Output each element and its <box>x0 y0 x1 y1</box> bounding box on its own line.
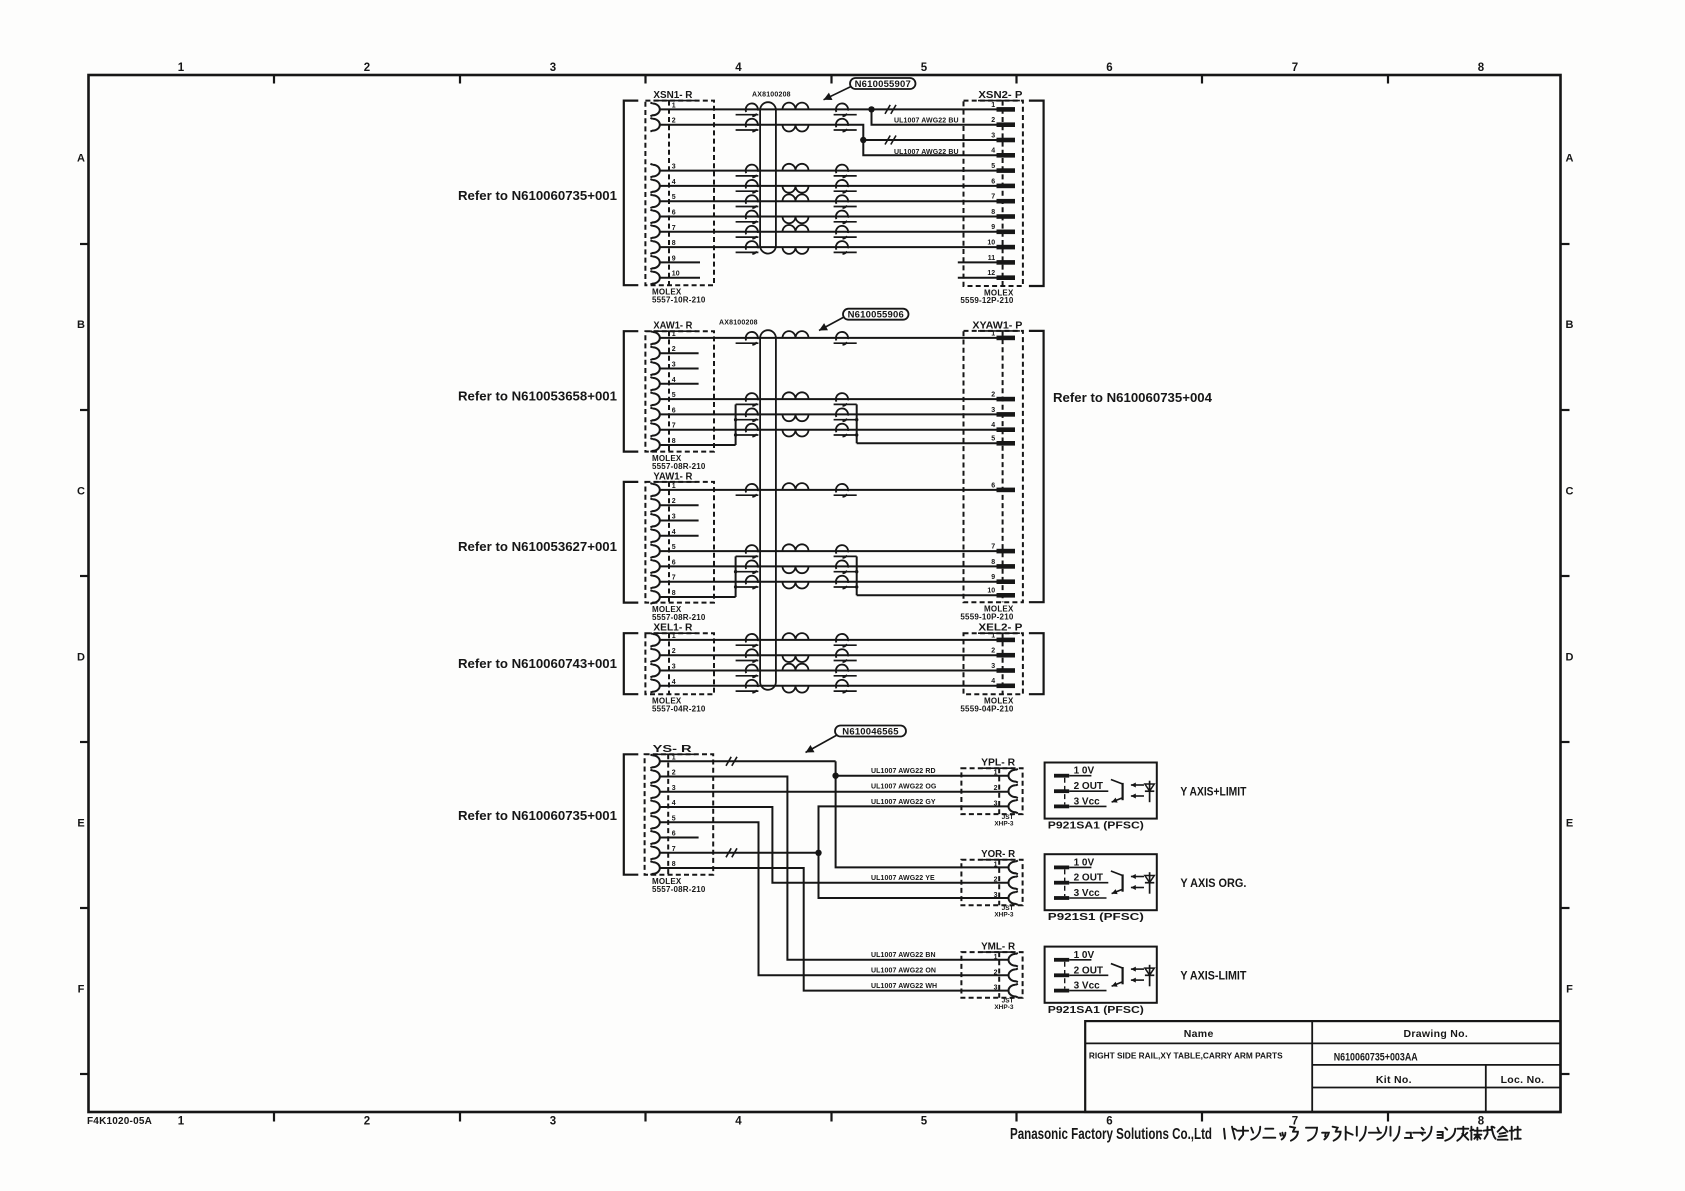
svg-text:10: 10 <box>672 271 680 278</box>
XSN2-P pin 8 plug contact <box>997 214 1016 219</box>
wire YS-1 with break mark <box>660 760 836 762</box>
svg-text:P921SA1 (PFSC): P921SA1 (PFSC) <box>1048 821 1144 832</box>
svg-text:1: 1 <box>672 754 676 761</box>
YML-R pin 1 contact <box>1009 953 1018 967</box>
YS-R pin 1 contact <box>650 755 659 769</box>
svg-text:2: 2 <box>364 62 370 74</box>
cable shield capsule section 1 <box>760 102 776 253</box>
YS-R pin 3 contact <box>650 785 659 799</box>
XSN2-P pin 12 stub wire <box>958 277 997 279</box>
svg-text:6: 6 <box>991 482 995 489</box>
svg-text:F: F <box>78 984 85 996</box>
svg-text:Refer to N610060743+001: Refer to N610060743+001 <box>458 656 617 671</box>
row tick left <box>80 409 89 411</box>
svg-text:7: 7 <box>991 194 995 201</box>
XEL2-P pin 2 plug contact <box>997 653 1016 658</box>
twisted pair symbols XEL1 wire 2 <box>746 649 758 662</box>
junction dot B <box>860 137 866 143</box>
wire XSN1-3 to XSN2-5 <box>660 170 997 172</box>
XSN1-R pin 9 contact <box>650 256 659 270</box>
connector XSN1-R inner dashed divider <box>668 101 670 286</box>
XYAW1-P pin 9 plug contact <box>997 579 1016 584</box>
connector XSN1-R bracket <box>624 101 639 286</box>
twisted pair symbols XAW1 wire 6 <box>746 408 758 421</box>
svg-text:E: E <box>1566 818 1573 830</box>
svg-text:3 Vcc: 3 Vcc <box>1074 796 1101 807</box>
svg-text:UL1007 AWG22 BN: UL1007 AWG22 BN <box>871 952 936 959</box>
title block row line 2 <box>1312 1064 1560 1066</box>
svg-text:Y AXIS ORG.: Y AXIS ORG. <box>1180 878 1246 890</box>
svg-text:P921SA1 (PFSC): P921SA1 (PFSC) <box>1048 1005 1144 1016</box>
svg-text:1 0V: 1 0V <box>1074 857 1095 868</box>
XSN2-P pin 6 plug contact <box>997 184 1016 189</box>
U3 pin 2 bar <box>1054 973 1069 977</box>
svg-text:UL1007 AWG22 OG: UL1007 AWG22 OG <box>871 784 937 791</box>
connector YAW1-R dashed outline <box>645 482 714 603</box>
wire XAW1-1 to XYAW1-1 <box>660 337 997 339</box>
connector XEL1-R bracket <box>624 633 639 694</box>
U2 pin 2 lead <box>1069 882 1108 884</box>
svg-text:1: 1 <box>991 330 995 337</box>
connector XSN2-P dashed outline <box>964 101 1023 286</box>
XYAW1-P pin 6 plug contact <box>997 488 1016 493</box>
YML-R pin 3 contact <box>1009 984 1018 998</box>
svg-text:XSN1- R: XSN1- R <box>653 89 692 101</box>
wire YS-3 to YPL-2 <box>660 791 1009 793</box>
callout N610055907 leader <box>824 87 852 100</box>
XSN2-P pin 11 stub wire <box>958 261 997 263</box>
wire YS-4 to YOR-2 <box>660 807 1009 883</box>
svg-text:XHP-3: XHP-3 <box>994 1004 1014 1011</box>
XYAW1-P pin 8 plug contact <box>997 564 1016 569</box>
wire Vcc up to YPL-3 <box>819 806 1009 852</box>
connector XYAW1-P bracket <box>1029 331 1044 602</box>
YAW1 pin2 stub wire <box>660 504 699 506</box>
YAW1-R pin 5 contact <box>650 544 659 558</box>
XAW1 pin2 stub wire <box>660 352 699 354</box>
svg-text:4: 4 <box>672 800 676 807</box>
svg-text:1: 1 <box>672 102 676 109</box>
column tick bottom <box>1201 1112 1203 1122</box>
svg-text:1 0V: 1 0V <box>1074 766 1095 777</box>
svg-text:5: 5 <box>672 392 676 399</box>
U2 light arrow 2 <box>1131 887 1144 889</box>
U3 internal dashed link <box>1064 962 1066 989</box>
wire 0V to YPL-1 <box>836 775 1009 777</box>
U1 light arrow 2 <box>1131 795 1144 797</box>
svg-text:3: 3 <box>991 663 995 670</box>
U1 pin 3 lead <box>1069 805 1106 807</box>
connector YS-R bracket <box>624 754 639 874</box>
svg-text:D: D <box>1566 652 1574 664</box>
svg-text:2: 2 <box>994 785 998 792</box>
U1 pin 2 lead <box>1069 790 1108 792</box>
svg-text:Y AXIS+LIMIT: Y AXIS+LIMIT <box>1180 786 1246 798</box>
XSN1-R pin 5 contact <box>650 194 659 208</box>
svg-text:UL1007 AWG22 BU: UL1007 AWG22 BU <box>894 149 959 156</box>
shield drain bus right section 3 <box>856 556 858 595</box>
YAW1 pin3 stub wire <box>660 520 699 522</box>
svg-text:11: 11 <box>988 255 996 262</box>
column tick top <box>1387 75 1389 84</box>
title block divider name/drawing <box>1311 1021 1313 1112</box>
connector YS-R inner dashed divider <box>667 754 669 874</box>
row tick right <box>1561 1073 1570 1075</box>
wire XSN1-1 to junction <box>660 108 872 110</box>
U1 pin 3 bar <box>1054 805 1069 809</box>
row tick left <box>80 575 89 577</box>
connector XAW1-R bracket <box>624 331 639 451</box>
svg-text:5559-12P-210: 5559-12P-210 <box>960 296 1013 305</box>
twisted pair symbols XSN1 wire 8 <box>746 241 758 254</box>
row tick right <box>1561 409 1570 411</box>
svg-text:4: 4 <box>672 529 676 536</box>
svg-text:3: 3 <box>550 62 556 74</box>
svg-text:1: 1 <box>672 483 676 490</box>
svg-text:3: 3 <box>672 664 676 671</box>
svg-text:UL1007 AWG22 RD: UL1007 AWG22 RD <box>871 768 936 775</box>
svg-text:UL1007 AWG22 BU: UL1007 AWG22 BU <box>894 118 959 125</box>
wire XEL1-4 to XEL2-4 <box>660 685 997 687</box>
break mark wire XSN2-3 <box>885 136 896 145</box>
connector XSN1-R dashed outline <box>645 101 714 286</box>
svg-text:6: 6 <box>672 559 676 566</box>
shield drain bus left section 2 <box>735 404 737 445</box>
U2 pin 3 lead <box>1069 897 1106 899</box>
svg-text:UL1007 AWG22 ON: UL1007 AWG22 ON <box>871 968 936 975</box>
YAW1-R pin 6 contact <box>650 560 659 574</box>
svg-text:Drawing No.: Drawing No. <box>1404 1028 1469 1040</box>
svg-text:XHP-3: XHP-3 <box>994 820 1014 827</box>
svg-text:3: 3 <box>991 132 995 139</box>
wire XAW1-5 to XYAW1-2 <box>660 398 997 400</box>
U3 pin 2 lead <box>1069 974 1108 976</box>
svg-text:4: 4 <box>735 1116 742 1128</box>
XAW1-R pin 8 contact <box>650 438 659 452</box>
column tick top <box>273 75 275 84</box>
footer company name japanese <box>1224 1127 1236 1139</box>
svg-text:Refer to N610060735+001: Refer to N610060735+001 <box>458 808 617 823</box>
YOR-R pin 3 contact <box>1009 891 1018 905</box>
svg-text:5: 5 <box>921 1116 928 1128</box>
XAW1-R pin 5 contact <box>650 392 659 406</box>
svg-text:F: F <box>1566 984 1573 996</box>
wire XAW1-6 to XYAW1-3 <box>660 413 997 415</box>
U1 internal dashed link <box>1064 778 1066 805</box>
U2 pin 1 bar <box>1054 866 1069 870</box>
svg-text:5: 5 <box>672 815 676 822</box>
svg-text:4: 4 <box>991 148 995 155</box>
svg-text:2: 2 <box>672 346 676 353</box>
svg-text:8: 8 <box>991 209 995 216</box>
twisted pair symbols XAW1 wire 1 <box>746 332 758 345</box>
YAW1-R pin 8 contact <box>650 590 659 604</box>
U1 pin 1 bar <box>1054 774 1069 778</box>
row tick left <box>80 741 89 743</box>
U2 pin 2 bar <box>1054 881 1069 885</box>
svg-text:3: 3 <box>550 1116 556 1128</box>
row tick right <box>1561 243 1570 245</box>
XYAW1-P pin 2 plug contact <box>997 397 1016 402</box>
svg-text:UL1007 AWG22 WH: UL1007 AWG22 WH <box>871 983 937 990</box>
XSN1-R pin 7 contact <box>650 225 659 239</box>
svg-text:1: 1 <box>994 954 998 961</box>
row tick right <box>1561 575 1570 577</box>
twisted pair symbols YAW1 wire 1 <box>746 484 758 497</box>
photo sensor U1 outline <box>1045 763 1157 819</box>
XEL2-P pin 3 plug contact <box>997 668 1016 673</box>
svg-text:N610055907: N610055907 <box>855 79 911 90</box>
twisted pair symbols XEL1 wire 4 <box>746 680 758 693</box>
twisted pair symbols XSN1 wire 1 <box>746 103 758 116</box>
XEL2-P pin 4 plug contact <box>997 684 1016 689</box>
svg-text:5559-10P-210: 5559-10P-210 <box>960 612 1013 621</box>
wire junction B to XSN2-3 <box>863 139 996 141</box>
svg-text:N610060735+003AA: N610060735+003AA <box>1334 1052 1418 1064</box>
svg-text:RIGHT SIDE RAIL,XY TABLE,CARRY: RIGHT SIDE RAIL,XY TABLE,CARRY ARM PARTS <box>1089 1051 1283 1061</box>
svg-text:7: 7 <box>1292 62 1298 74</box>
svg-text:1: 1 <box>991 632 995 639</box>
U1 pin 1 lead <box>1069 775 1091 777</box>
wire YAW1-5 to XYAW1-7 <box>660 550 997 552</box>
svg-text:9: 9 <box>672 255 676 262</box>
column tick bottom <box>459 1112 461 1122</box>
connector XEL2-P inner dashed divider <box>1002 633 1004 694</box>
twisted pair symbols XSN1 wire 5 <box>746 195 758 208</box>
U2 photodiode <box>1149 872 1151 894</box>
U1 photodiode <box>1149 781 1151 803</box>
svg-text:3: 3 <box>994 800 998 807</box>
svg-text:3: 3 <box>672 164 676 171</box>
twisted pair symbols XAW1 wire 7 <box>746 424 758 437</box>
YAW1-R pin 1 contact <box>650 483 659 497</box>
svg-text:1: 1 <box>672 633 676 640</box>
XAW1-R pin 3 contact <box>650 362 659 376</box>
connector YML-R dashed outline <box>961 952 1022 998</box>
column tick top <box>830 75 832 84</box>
U3 phototransistor <box>1121 967 1123 984</box>
YS-R pin 7 contact <box>650 846 659 860</box>
svg-text:3: 3 <box>991 407 995 414</box>
svg-text:5557-08R-210: 5557-08R-210 <box>652 613 706 622</box>
svg-text:5: 5 <box>921 62 928 74</box>
svg-text:2: 2 <box>994 877 998 884</box>
connector YOR-R inner dashed divider <box>998 860 1000 906</box>
svg-text:2: 2 <box>364 1116 370 1128</box>
svg-text:XEL1- R: XEL1- R <box>653 622 692 634</box>
column tick top <box>1201 75 1203 84</box>
svg-text:B: B <box>1566 319 1574 331</box>
shield drain bus left section 3 <box>735 556 737 597</box>
YS-R pin 8 contact <box>650 861 659 875</box>
wire YAW1-1 to XYAW1-6 <box>660 489 997 491</box>
svg-text:Refer to N610053658+001: Refer to N610053658+001 <box>458 389 617 404</box>
svg-text:AX8100208: AX8100208 <box>752 92 791 99</box>
svg-text:N610046565: N610046565 <box>842 726 899 737</box>
wire YS-5 to YML-2 <box>660 822 1009 975</box>
svg-text:XSN2- P: XSN2- P <box>978 89 1022 101</box>
svg-text:XAW1- R: XAW1- R <box>653 320 692 332</box>
wire drain bus to XYAW1-5 <box>857 442 997 444</box>
U1 phototransistor <box>1121 783 1123 800</box>
svg-text:P921S1 (PFSC): P921S1 (PFSC) <box>1048 912 1144 923</box>
drain bus left junction dots section 2 <box>734 418 737 421</box>
XSN2-P pin 11 plug contact <box>997 260 1016 265</box>
wire XAW1-7 to XYAW1-4 <box>660 429 997 431</box>
svg-text:2 OUT: 2 OUT <box>1074 965 1103 976</box>
twisted pair symbols XAW1 wire 5 <box>746 393 758 406</box>
YS-R pin 5 contact <box>650 816 659 830</box>
U2 light arrow 1 <box>1131 876 1144 878</box>
XYAW1-P pin 10 plug contact <box>997 593 1016 598</box>
XSN2-P pin 10 plug contact <box>997 245 1016 250</box>
junction dot 0V <box>832 773 838 779</box>
svg-text:UL1007 AWG22 GY: UL1007 AWG22 GY <box>871 799 936 806</box>
svg-text:1: 1 <box>178 62 185 74</box>
wire YS-7 with break mark <box>660 852 819 854</box>
svg-text:3 Vcc: 3 Vcc <box>1074 981 1101 992</box>
U2 internal dashed link <box>1064 869 1066 896</box>
XSN1-R pin 1 contact <box>650 103 659 117</box>
wire junction A to XSN2-1 <box>872 108 997 110</box>
XYAW1-P pin 5 plug contact <box>997 441 1016 446</box>
svg-text:3: 3 <box>672 362 676 369</box>
svg-text:3 Vcc: 3 Vcc <box>1074 888 1101 899</box>
drawing sheet border frame <box>89 75 1561 1112</box>
svg-text:YS- R: YS- R <box>653 743 693 755</box>
junction dot A <box>868 106 874 112</box>
U1 light arrow 1 <box>1131 784 1144 786</box>
svg-text:1 0V: 1 0V <box>1074 950 1095 961</box>
XEL1-R pin 1 contact <box>650 633 659 647</box>
svg-text:4: 4 <box>735 62 742 74</box>
wire YAW1-8 to drain bus <box>660 596 736 598</box>
svg-text:C: C <box>1566 486 1574 498</box>
XSN1 pin9 stub wire <box>660 261 700 263</box>
YAW1-R pin 2 contact <box>650 498 659 512</box>
YAW1 pin4 stub wire <box>660 535 699 537</box>
wire XEL1-3 to XEL2-3 <box>660 670 997 672</box>
svg-text:10: 10 <box>987 588 995 595</box>
svg-text:Panasonic Factory Solutions Co: Panasonic Factory Solutions Co.,Ltd <box>1010 1126 1212 1143</box>
wire XEL1-2 to XEL2-2 <box>660 654 997 656</box>
svg-text:10: 10 <box>987 240 995 247</box>
connector XSN2-P bracket <box>1029 101 1044 286</box>
svg-text:2: 2 <box>672 770 676 777</box>
XYAW1-P pin 7 plug contact <box>997 549 1016 554</box>
svg-text:3: 3 <box>672 514 676 521</box>
svg-text:7: 7 <box>1292 1116 1298 1128</box>
svg-text:4: 4 <box>672 179 676 186</box>
svg-text:5: 5 <box>991 163 995 170</box>
svg-text:8: 8 <box>991 559 995 566</box>
svg-text:8: 8 <box>672 590 676 597</box>
XSN1 pin10 stub wire <box>660 277 700 279</box>
title block divider kit/loc <box>1485 1065 1487 1112</box>
XSN1-R pin 4 contact <box>650 179 659 193</box>
row tick left <box>80 907 89 909</box>
title block outline <box>1085 1021 1560 1112</box>
XSN1-R pin 6 contact <box>650 210 659 224</box>
wire YS-2 to YML-1 <box>660 777 1009 960</box>
junction dot Vcc <box>815 850 821 856</box>
XEL1-R pin 3 contact <box>650 664 659 678</box>
column tick bottom <box>1015 1112 1017 1122</box>
svg-text:5557-10R-210: 5557-10R-210 <box>652 295 706 304</box>
cable shield capsule sections 2-4 <box>760 330 776 690</box>
svg-text:7: 7 <box>672 846 676 853</box>
svg-text:2: 2 <box>672 118 676 125</box>
XAW1-R pin 7 contact <box>650 423 659 437</box>
XAW1 pin3 stub wire <box>660 368 699 370</box>
XYAW1-P pin 3 plug contact <box>997 412 1016 417</box>
XSN2-P pin 7 plug contact <box>997 199 1016 204</box>
svg-text:1: 1 <box>672 331 676 338</box>
svg-text:8: 8 <box>672 438 676 445</box>
connector YPL-R inner dashed divider <box>998 768 1000 814</box>
svg-text:8: 8 <box>1478 62 1485 74</box>
XAW1-R pin 1 contact <box>650 331 659 345</box>
callout N610046565 leader <box>806 735 838 753</box>
svg-text:2: 2 <box>991 392 995 399</box>
XSN2-P pin 5 plug contact <box>997 168 1016 173</box>
callout N610055906 leader <box>819 317 844 331</box>
U3 pin 3 bar <box>1054 989 1069 993</box>
svg-text:B: B <box>77 319 85 331</box>
U2 phototransistor <box>1121 874 1123 891</box>
twisted pair symbols XEL1 wire 3 <box>746 665 758 678</box>
twisted pair symbols XSN1 wire 6 <box>746 211 758 224</box>
svg-text:Refer to N610053627+001: Refer to N610053627+001 <box>458 539 617 554</box>
connector XEL1-R dashed outline <box>645 633 714 694</box>
twisted pair symbols XSN1 wire 2 <box>746 119 758 132</box>
YOR-R pin 1 contact <box>1009 861 1018 875</box>
svg-text:4: 4 <box>672 679 676 686</box>
twisted pair symbols YAW1 wire 6 <box>746 560 758 573</box>
svg-text:5: 5 <box>672 194 676 201</box>
XSN2-P pin 2 plug contact <box>997 122 1016 127</box>
U3 pin 1 lead <box>1069 959 1091 961</box>
svg-text:5: 5 <box>991 436 995 443</box>
svg-text:Kit No.: Kit No. <box>1376 1074 1412 1086</box>
svg-text:2 OUT: 2 OUT <box>1074 873 1103 884</box>
svg-text:7: 7 <box>672 225 676 232</box>
wire XSN1-7 to XSN2-9 <box>660 231 997 233</box>
U3 light arrow 2 <box>1131 979 1144 981</box>
svg-text:6: 6 <box>672 831 676 838</box>
wire XSN1-5 to XSN2-7 <box>660 200 997 202</box>
XAW1-R pin 2 contact <box>650 346 659 360</box>
svg-text:5: 5 <box>672 544 676 551</box>
wire 0V down to YOR-1 <box>836 776 1009 868</box>
YPL-R pin 1 contact <box>1009 769 1018 783</box>
svg-text:1: 1 <box>994 861 998 868</box>
wire XAW1-8 to drain bus <box>660 444 736 446</box>
connector XEL2-P bracket <box>1029 633 1044 694</box>
svg-text:3: 3 <box>994 985 998 992</box>
photo sensor U3 outline <box>1045 947 1157 1003</box>
svg-text:Y AXIS-LIMIT: Y AXIS-LIMIT <box>1180 971 1246 983</box>
svg-text:AX8100208: AX8100208 <box>719 320 758 327</box>
row tick left <box>80 1073 89 1075</box>
wire YS-1 drop to 0V node <box>835 761 837 775</box>
connector YAW1-R bracket <box>624 482 639 603</box>
XSN2-P pin 12 plug contact <box>997 275 1016 280</box>
svg-text:4: 4 <box>991 422 995 429</box>
svg-text:Refer to N610060735+001: Refer to N610060735+001 <box>458 188 617 203</box>
twisted pair symbols YAW1 wire 5 <box>746 545 758 558</box>
U3 photodiode <box>1149 965 1151 987</box>
